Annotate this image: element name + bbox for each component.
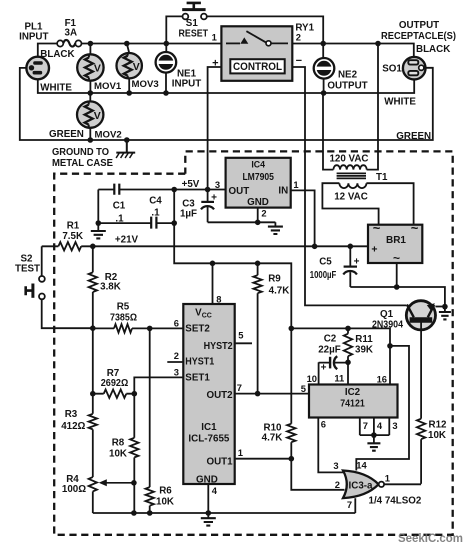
pin 2 label IC4 (261, 208, 266, 219)
svg-text:Q1: Q1 (380, 309, 394, 320)
pin 7 label IC1 (237, 382, 242, 393)
wire MOV2 stems (89, 93, 91, 140)
ground IC4 (268, 227, 283, 234)
label OUTPUT RECEPTACLE(S) (381, 20, 456, 42)
svg-text:R9: R9 (268, 273, 281, 284)
capacitor C3 (180, 190, 217, 223)
svg-text:+: + (371, 244, 377, 256)
varistor MOV1 (77, 54, 122, 92)
svg-text:TEST: TEST (15, 263, 40, 274)
bridge rectifier BR1 (368, 221, 422, 265)
dashed shield box (54, 151, 453, 534)
svg-text:16: 16 (377, 373, 387, 384)
svg-text:5: 5 (301, 383, 306, 394)
wire plug black vertical (38, 44, 57, 58)
svg-text:CONTROL: CONTROL (233, 61, 282, 73)
resistor R8 (109, 394, 138, 513)
svg-text:SET1: SET1 (185, 373, 210, 384)
wire node328 to pin16 drop (291, 328, 390, 384)
wire IC1 pin8 (212, 263, 214, 304)
resistor R1 (58, 221, 83, 251)
svg-text:C2: C2 (324, 333, 337, 344)
wire ground bus bottom (93, 512, 356, 514)
svg-text:7: 7 (363, 420, 368, 431)
label +21V (115, 234, 139, 245)
wire HYST1 stub (167, 361, 183, 363)
neon lamp NE1 (156, 52, 202, 89)
junction case ground (124, 137, 130, 143)
svg-text:2: 2 (174, 350, 179, 361)
junction +5V C1C4 (171, 187, 177, 193)
pin 5 label IC2 (301, 383, 306, 394)
wire C1C4 left leg (97, 190, 99, 224)
svg-text:3: 3 (174, 366, 179, 377)
pins 7 4 3 IC2 to ground (360, 418, 398, 451)
svg-text:.1: .1 (151, 207, 160, 218)
svg-text:OUT2: OUT2 (206, 390, 233, 401)
junction Q1 emitter gnd (442, 304, 448, 310)
svg-text:~: ~ (373, 221, 381, 236)
svg-text:3A: 3A (65, 27, 78, 38)
svg-text:4: 4 (377, 420, 383, 431)
svg-text:GROUND TO: GROUND TO (52, 147, 109, 158)
ground to metal case symbol (52, 140, 135, 169)
wire C4 rail (98, 222, 174, 224)
junction R5 R6 (147, 326, 153, 332)
svg-text:ICL-7655: ICL-7655 (188, 433, 230, 444)
junction OUT1 R10 (289, 456, 295, 462)
svg-text:2692Ω: 2692Ω (101, 378, 129, 389)
wire MOV1 stems (89, 44, 91, 94)
junction R11 top (345, 326, 351, 332)
junction IC1 gnd bus (206, 510, 212, 516)
wire RY1 plus to +5V node (208, 67, 222, 188)
wire SET1 (134, 377, 183, 393)
svg-text:R8: R8 (112, 437, 125, 448)
pin 11 label IC2 (334, 372, 344, 383)
svg-text:R6: R6 (159, 486, 172, 497)
svg-text:SET2: SET2 (185, 324, 210, 335)
svg-text:INPUT: INPUT (19, 32, 48, 43)
capacitor C2 (318, 333, 348, 373)
switch S2 TEST (15, 246, 93, 328)
wire AC black bus (82, 43, 222, 45)
varistor MOV2 (77, 101, 122, 140)
svg-text:C1: C1 (113, 201, 126, 212)
svg-text:4.7K: 4.7K (262, 432, 283, 443)
svg-text:R12: R12 (429, 420, 448, 431)
junction BR1 minus (394, 284, 400, 290)
junction Vcc pin8 (210, 261, 216, 267)
junction R6 bus (147, 510, 153, 516)
svg-text:IC1: IC1 (201, 422, 217, 433)
svg-text:7: 7 (347, 499, 352, 510)
resistor R10 (262, 422, 296, 458)
svg-text:GND: GND (196, 474, 218, 485)
pin 1 label IC4 (293, 179, 298, 190)
wire pin11 (347, 362, 349, 384)
svg-text:IC3-a: IC3-a (349, 480, 374, 491)
svg-text:R5: R5 (117, 301, 130, 312)
pin 6 label IC1 (174, 318, 179, 329)
svg-text:1/4 74LSO2: 1/4 74LSO2 (369, 495, 422, 506)
svg-text:1000µF: 1000µF (310, 270, 337, 281)
wire Vcc drop to SET2net (290, 328, 292, 423)
junction Vcc R9 (255, 261, 261, 267)
junction C4 +5V drop (171, 220, 177, 226)
svg-text:BLACK: BLACK (40, 49, 74, 60)
junction IC4IN rail (312, 244, 318, 250)
svg-text:10K: 10K (156, 497, 174, 508)
svg-text:V: V (94, 63, 101, 75)
resistor R2 (89, 246, 121, 328)
junction +5V C3 (205, 187, 211, 193)
capacitor C4 (149, 196, 162, 229)
resistor R7 (93, 368, 135, 398)
op IC1 ICL-7655 (183, 304, 234, 485)
monostable IC2 74121 (309, 385, 398, 418)
svg-text:3.8K: 3.8K (100, 282, 121, 293)
transformer T1 (322, 44, 413, 225)
relay RY1 (212, 23, 315, 81)
receptacle SO1 (382, 57, 425, 80)
junction MOV2 bottom (88, 137, 94, 143)
svg-text:14: 14 (356, 459, 367, 470)
junction MOV3 top (124, 41, 130, 47)
resistor R11 (344, 328, 373, 362)
pin 1 label IC1 (238, 447, 243, 458)
wire +5V rail (98, 189, 225, 191)
wire OUT1 to gate pin2 (291, 459, 344, 490)
label +5V (182, 179, 200, 190)
label GREEN (output) (396, 131, 431, 142)
svg-text:+21V: +21V (115, 234, 139, 245)
junction R7 left (90, 391, 96, 397)
svg-text:2N3904: 2N3904 (372, 319, 403, 330)
svg-text:~: ~ (393, 251, 400, 265)
pin 2 label IC1 (174, 350, 179, 361)
resistor R3 (61, 409, 97, 477)
ground C1C4 (91, 223, 106, 238)
svg-text:10K: 10K (428, 430, 446, 441)
svg-text:1: 1 (385, 473, 390, 484)
wire HYST2 stub (235, 342, 252, 344)
svg-text:100Ω: 100Ω (62, 484, 86, 495)
svg-text:2: 2 (335, 479, 340, 490)
wire IC4 ground (208, 208, 276, 227)
svg-text:R3: R3 (65, 409, 78, 420)
wire MOV3 stems (127, 44, 129, 94)
transistor Q1 2N3904 (372, 301, 445, 419)
svg-text:BR1: BR1 (386, 235, 406, 246)
potentiometer R4 (62, 474, 134, 513)
svg-text:7385Ω: 7385Ω (110, 313, 137, 324)
svg-text:HYST1: HYST1 (185, 356, 215, 367)
junction R7 R8 SET1 (132, 391, 138, 397)
svg-text:IN: IN (278, 186, 288, 197)
resistor R9 (253, 263, 289, 393)
wire NE1 stems (165, 44, 167, 94)
wire white bus (38, 79, 414, 93)
svg-text:11: 11 (334, 372, 344, 383)
svg-text:4: 4 (212, 485, 218, 496)
svg-text:SeekIC.com: SeekIC.com (398, 531, 463, 545)
svg-text:412Ω: 412Ω (61, 421, 85, 432)
svg-text:IC4: IC4 (251, 160, 265, 170)
wire IC1 pin4 (207, 484, 209, 513)
svg-text:7.5K: 7.5K (62, 231, 83, 242)
junction MOV1 top (88, 41, 94, 47)
svg-text:−: − (296, 55, 302, 67)
svg-text:2: 2 (261, 208, 266, 219)
wire branch to pin14 (356, 346, 409, 471)
resistor R5 (93, 301, 184, 332)
junction transformer primary right (375, 41, 381, 47)
label 1/4 74LSO2 (369, 495, 422, 506)
svg-text:WHITE: WHITE (384, 96, 416, 107)
junction R8 wiper (131, 480, 137, 486)
svg-text:10K: 10K (109, 448, 127, 459)
junction NE2 top (320, 41, 326, 47)
pin 8 label IC1 (216, 293, 221, 304)
pin 16 label IC2 (377, 373, 387, 384)
svg-text:IC2: IC2 (345, 387, 361, 398)
resistor R6 (146, 328, 174, 513)
ground Q1 (439, 307, 451, 320)
pin 3 label IC4 (215, 179, 220, 190)
pin 3 label IC3 (333, 460, 338, 471)
resistor R12 (417, 419, 447, 484)
svg-text:+5V: +5V (182, 179, 200, 190)
svg-text:5: 5 (238, 329, 243, 340)
pin 5 label IC1 (238, 329, 243, 340)
capacitor C1 (113, 184, 126, 225)
pin 2 label IC3 (335, 479, 340, 490)
svg-text:OUT: OUT (229, 186, 250, 197)
svg-text:SO1: SO1 (382, 64, 402, 75)
svg-text:~: ~ (411, 221, 419, 236)
wire NE2 stems (322, 44, 324, 94)
neon lamp NE2 (314, 58, 368, 91)
svg-text:BLACK: BLACK (416, 44, 450, 55)
junction C5 top (348, 244, 354, 250)
svg-text:T1: T1 (376, 172, 388, 183)
junction pin16 branch (387, 343, 393, 349)
svg-text:120 VAC: 120 VAC (329, 154, 368, 165)
svg-text:WHITE: WHITE (40, 83, 72, 94)
svg-text:+: + (321, 363, 327, 374)
pin 3 label IC1 (174, 366, 179, 377)
svg-text:22µF: 22µF (318, 344, 341, 355)
svg-text:V: V (133, 61, 140, 73)
gate IC3-a (343, 471, 384, 499)
label WHITE (output) (384, 96, 416, 107)
wire OUT1 (235, 458, 292, 460)
svg-text:74121: 74121 (340, 399, 365, 410)
svg-text:3: 3 (215, 179, 220, 190)
pin 7 label IC3 (347, 499, 352, 510)
svg-text:RESET: RESET (179, 29, 209, 40)
svg-text:10: 10 (307, 373, 317, 384)
varistor MOV3 (117, 53, 159, 90)
label BLACK (input) (40, 49, 74, 60)
svg-text:INPUT: INPUT (172, 78, 201, 89)
svg-text:NE2: NE2 (338, 70, 358, 81)
junction node 291-328 (289, 326, 295, 332)
svg-text:6: 6 (321, 418, 326, 429)
svg-text:OUTPUT: OUTPUT (327, 81, 367, 92)
ground IC1 (201, 513, 216, 526)
svg-text:1µF: 1µF (180, 208, 197, 219)
junction C1C4 ground (96, 220, 102, 226)
svg-text:12 VAC: 12 VAC (334, 191, 368, 202)
junction R1 R2 (90, 244, 96, 250)
wire IC2 pin6 to gate pin3 (318, 418, 344, 473)
regulator IC4 LM7905 (226, 158, 291, 208)
pin 6 label IC2 (321, 418, 326, 429)
pin 1 label IC3 (385, 473, 390, 484)
junction R8 bus (131, 510, 137, 516)
svg-text:1: 1 (212, 32, 217, 43)
wire RY1 pin2 to SO1 (292, 44, 414, 58)
capacitor C5 (310, 246, 360, 287)
svg-text:MOV3: MOV3 (132, 79, 159, 90)
junction MOV3 bottom (126, 90, 132, 96)
svg-text:C4: C4 (149, 196, 162, 207)
svg-text:MOV2: MOV2 (95, 129, 122, 140)
svg-text:3: 3 (333, 460, 338, 471)
pin 10 label IC2 (307, 373, 317, 384)
svg-text:R11: R11 (355, 334, 373, 345)
wire green bus (20, 68, 433, 140)
wire OUT2 (235, 393, 309, 395)
svg-text:V: V (94, 110, 101, 122)
wire RY1 minus to Q1 collector (292, 67, 406, 305)
label GREEN (input) (49, 129, 84, 140)
pin 4 label IC1 (212, 485, 218, 496)
svg-text:+: + (354, 256, 360, 267)
svg-text:OUTPUT: OUTPUT (399, 20, 439, 31)
svg-text:4.7K: 4.7K (269, 285, 290, 296)
junction MOV1 bottom (88, 90, 94, 96)
wire gate pin7 (354, 498, 356, 513)
svg-text:LM7905: LM7905 (242, 171, 274, 183)
svg-text:1: 1 (238, 447, 243, 458)
junction C2 R11 pin11 (345, 360, 351, 366)
label WHITE (input) (40, 83, 72, 94)
svg-text:METAL CASE: METAL CASE (52, 158, 113, 169)
junction NE2 bottom (321, 90, 327, 96)
wire R2 chain down (92, 328, 94, 414)
svg-text:3: 3 (392, 420, 397, 431)
svg-text:C5: C5 (319, 256, 332, 267)
fuse F1 3A (57, 18, 81, 47)
svg-text:39K: 39K (355, 345, 373, 356)
wire gate output (384, 483, 421, 485)
wire BR1 minus rail (350, 263, 445, 307)
label BLACK (output) (416, 44, 450, 55)
svg-text:HYST2: HYST2 (204, 341, 234, 352)
junction S2 R2 R5 (90, 325, 96, 331)
junction NE1 bottom (163, 90, 169, 96)
junction OUT2 R9 (255, 391, 261, 397)
svg-text:OUT1: OUT1 (206, 456, 233, 467)
svg-text:+: + (211, 193, 217, 204)
svg-text:GND: GND (247, 197, 269, 208)
svg-text:RECEPTACLE(S): RECEPTACLE(S) (381, 31, 456, 42)
svg-text:7: 7 (237, 382, 242, 393)
wire +21V rail (42, 245, 368, 247)
svg-text:8: 8 (216, 293, 221, 304)
pin 14 label IC3 (356, 459, 367, 470)
svg-text:1: 1 (293, 179, 298, 190)
wire IC4 IN drop (291, 190, 315, 246)
junction NE1 top (164, 41, 170, 47)
svg-text:MOV1: MOV1 (94, 81, 122, 92)
switch S1 RESET (166, 3, 323, 44)
junction IC4 gnd (255, 220, 261, 226)
svg-text:6: 6 (174, 318, 179, 329)
wire pin10 (318, 362, 320, 384)
wire +5V to Vcc rail (174, 190, 291, 329)
watermark (398, 531, 463, 545)
plug PL1 (19, 22, 49, 80)
svg-text:GREEN: GREEN (49, 129, 84, 140)
svg-text:2: 2 (296, 32, 301, 43)
